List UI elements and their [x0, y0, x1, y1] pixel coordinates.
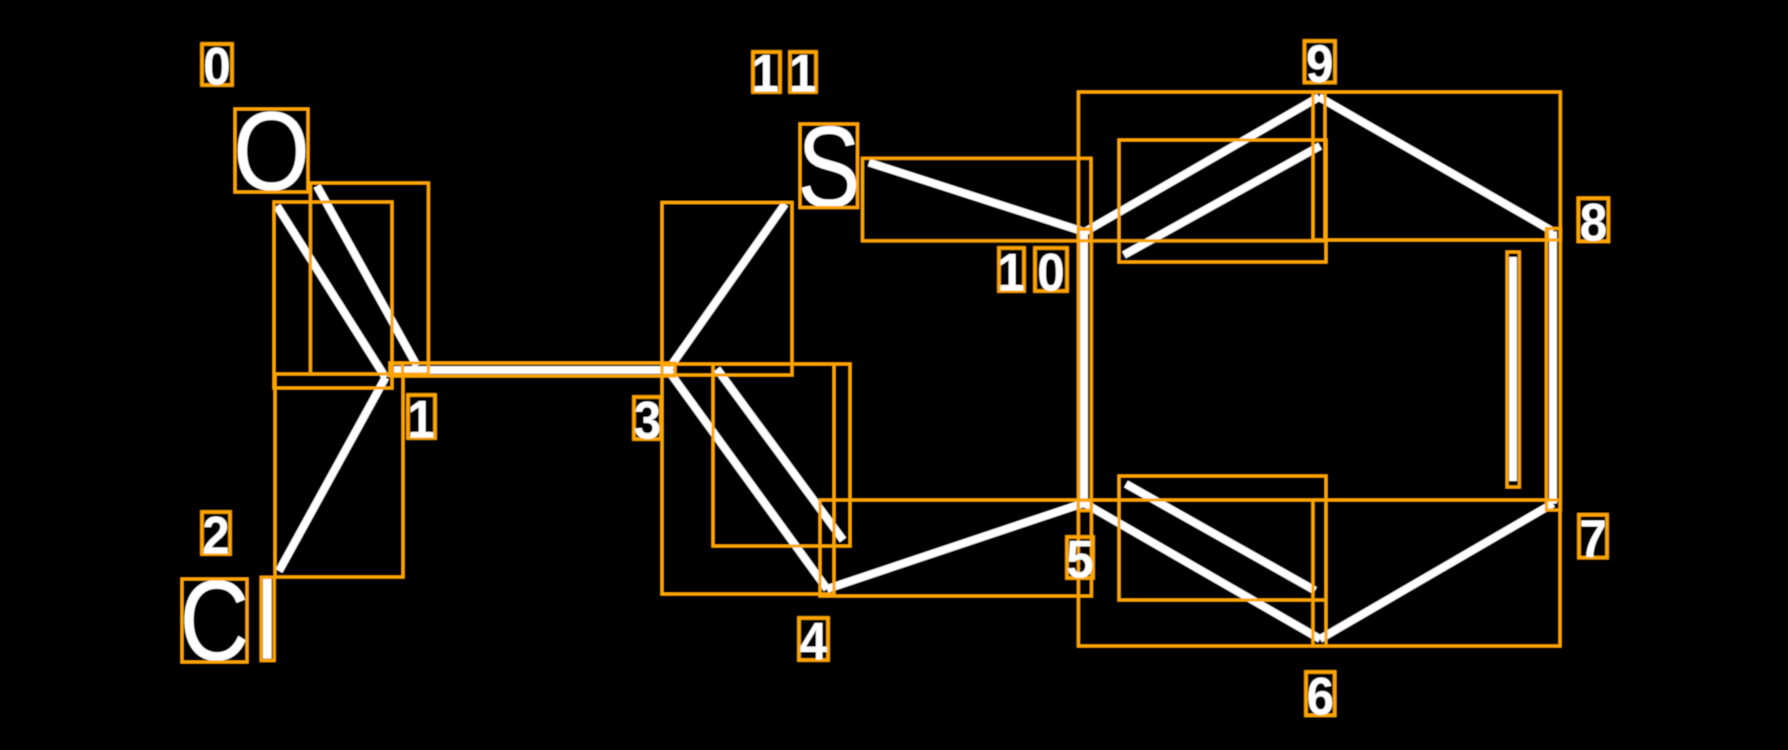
bbox bond C8-C7 main line	[1546, 229, 1560, 511]
bbox bond C7-C6	[1313, 500, 1560, 646]
bbox bond C10-C9 inner line	[1119, 140, 1326, 262]
bond C3=C4 (inner line)	[717, 369, 843, 540]
index label 7 (atom C7)	[1579, 509, 1607, 568]
bond C4-C5	[827, 503, 1084, 589]
bbox bond C1-Cl	[275, 374, 403, 577]
svg-text:1: 1	[789, 44, 816, 103]
bond C6=C5 (inner aromatic line)	[1126, 484, 1315, 591]
bond C1-C3	[394, 366, 668, 374]
bbox atom C5	[1078, 500, 1091, 510]
bbox bond C4-C5	[820, 500, 1091, 596]
index label 10 (atom C10) digit 0	[1035, 243, 1067, 302]
bond S11-C10	[869, 163, 1085, 233]
bond S11-C3	[668, 204, 785, 370]
bbox bond C6-C5 inner line	[1119, 476, 1326, 600]
bond C8=C7 (inner aromatic line)	[1509, 257, 1517, 481]
svg-text:6: 6	[1307, 667, 1334, 726]
svg-text:1: 1	[997, 243, 1024, 302]
bbox bond O=C1 inner line	[310, 183, 428, 374]
bbox bond C10-C9 main line	[1078, 92, 1325, 241]
bond C8-C7 (ring)	[1549, 232, 1557, 504]
bbox bond C3=C4 inner line	[713, 364, 850, 546]
svg-text:7: 7	[1579, 509, 1606, 568]
svg-text:0: 0	[203, 37, 230, 96]
index label 0 (atom O)	[202, 37, 232, 96]
bond C7-C6 (ring)	[1320, 504, 1553, 640]
svg-text:5: 5	[1066, 530, 1093, 589]
bbox bond C3-S11	[662, 203, 792, 376]
index label 1 (atom C1)	[407, 390, 435, 449]
bbox atom C8	[1548, 229, 1561, 241]
svg-text:0: 0	[1037, 243, 1064, 302]
bbox bond C6-C5 main line	[1078, 500, 1326, 646]
bbox atom C10	[1078, 229, 1091, 240]
bbox atom Cl 'C' glyph	[182, 579, 247, 662]
svg-text:4: 4	[800, 612, 828, 671]
bond C6-C5 (ring, main line)	[1084, 503, 1320, 639]
svg-text:2: 2	[202, 506, 229, 565]
index label 8 (atom C8)	[1578, 193, 1608, 252]
bbox bond S11-C10	[863, 158, 1092, 241]
index label 5 (atom C5)	[1066, 530, 1093, 589]
bbox bond C3=C4 main line	[662, 364, 834, 594]
bbox bond C9-C8	[1313, 92, 1560, 240]
index label 11 (atom S) digit 1 (second)	[789, 44, 816, 103]
index label 2 (atom Cl)	[202, 506, 230, 565]
bbox bond C1-C3	[390, 363, 675, 376]
svg-text:3: 3	[634, 391, 661, 450]
bbox bond C8-C7 inner line	[1507, 252, 1519, 487]
index label 4 (atom C4)	[799, 612, 828, 671]
bond C10=C9 (inner aromatic line)	[1124, 146, 1320, 255]
bond C9-C8 (ring)	[1319, 97, 1553, 232]
bond C10-C5 (ring fusion)	[1080, 230, 1088, 508]
bbox atom O glyph	[235, 109, 308, 192]
bbox atom S glyph	[800, 124, 858, 208]
svg-text:1: 1	[407, 390, 434, 449]
index label 11 (atom S) digit 1 (first)	[751, 44, 780, 103]
bbox atom C3	[662, 365, 675, 376]
bbox atom Cl 'l' glyph	[261, 577, 274, 660]
svg-text:9: 9	[1306, 34, 1333, 93]
bbox bond O=C1 outer line	[274, 202, 392, 388]
bond C10-C9 (ring)	[1085, 97, 1320, 232]
bbox bond C10-C5	[1078, 229, 1091, 510]
index label 6 (atom C6)	[1306, 667, 1335, 726]
bond O=C1 double (inner line)	[317, 186, 417, 366]
bond C3=C4 (main line)	[668, 370, 827, 589]
index label 10 (atom C10) digit 1	[997, 243, 1024, 302]
bond C1-Cl	[279, 378, 386, 572]
bond O=C1 double (outer line)	[277, 206, 386, 378]
index label 3 (atom C3)	[634, 391, 661, 450]
svg-text:1: 1	[751, 44, 778, 103]
atom label Cl (atom 2) - l glyph	[263, 579, 272, 659]
svg-text:8: 8	[1580, 193, 1607, 252]
bbox atom C1	[392, 364, 403, 375]
index label 9 (atom C9)	[1305, 34, 1336, 93]
svg-text:C: C	[180, 558, 250, 685]
